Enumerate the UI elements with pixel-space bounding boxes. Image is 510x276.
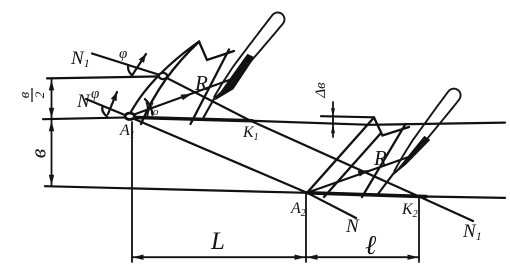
svg-text:Δв: Δв bbox=[313, 82, 329, 99]
svg-text:в: в bbox=[17, 91, 33, 98]
svg-text:R: R bbox=[373, 146, 387, 170]
svg-text:R: R bbox=[194, 71, 208, 95]
svg-text:L: L bbox=[210, 228, 225, 255]
svg-text:N: N bbox=[76, 91, 91, 112]
svg-text:φ: φ bbox=[91, 86, 99, 102]
svg-text:N: N bbox=[345, 216, 360, 237]
svg-text:в: в bbox=[26, 148, 51, 158]
svg-text:φ: φ bbox=[119, 46, 127, 62]
svg-text:2: 2 bbox=[32, 91, 47, 98]
svg-text:ℓ: ℓ bbox=[365, 230, 377, 260]
